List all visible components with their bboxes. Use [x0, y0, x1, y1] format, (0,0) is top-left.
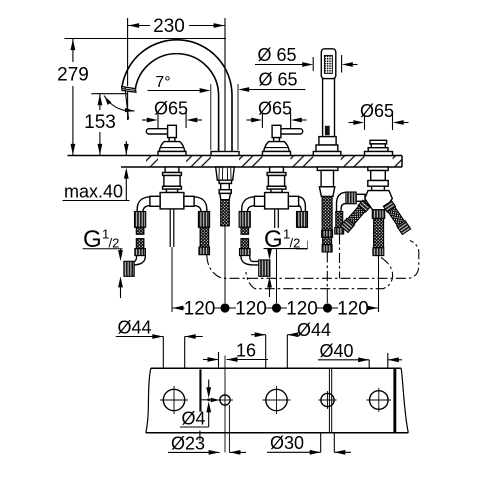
svg-text:Ø 65: Ø 65	[257, 45, 296, 65]
spout (hole 2)	[122, 40, 232, 156]
svg-text:Ø65: Ø65	[154, 99, 188, 119]
hole 1 plan circle Ø44	[160, 386, 188, 414]
valve 1 tailpiece	[170, 209, 174, 312]
7 degree angle annotation	[103, 87, 211, 121]
dimension Ø 65 (spout hole 2)	[211, 84, 306, 150]
svg-text:Ø30: Ø30	[270, 433, 304, 453]
dimension line 120x4	[172, 303, 379, 312]
left break line	[146, 368, 151, 432]
deck top surface line	[68, 155, 403, 157]
dash-dot connection line B (valve3 G1/2 end to diverter center hose)	[246, 258, 393, 289]
dimension Ø65 (diverter hole 5)	[349, 115, 409, 131]
dimension Ø65 (handle hole 1)	[142, 113, 202, 129]
spout escutcheon	[211, 152, 239, 156]
dimension 16	[203, 352, 268, 452]
G1/2 elbow end V1	[134, 256, 145, 265]
dimension Ø44 (hole 1 plan)	[116, 334, 203, 368]
svg-text:Ø65: Ø65	[258, 99, 292, 119]
svg-text:Ø4: Ø4	[182, 409, 206, 429]
braided hose V1 left	[136, 227, 144, 234]
right elbow pipe V3	[299, 197, 306, 212]
right break line	[401, 368, 408, 432]
hose nuts V1	[135, 212, 146, 228]
svg-text:230: 230	[153, 16, 185, 37]
svg-text:Ø44: Ø44	[297, 320, 331, 340]
diverter knob (hole 5)	[365, 140, 393, 155]
svg-text:279: 279	[57, 65, 89, 86]
dimension Ø30 (hole 4 plan)	[267, 433, 351, 455]
handle 1 (hole 1 lever)	[146, 125, 186, 155]
svg-text:Ø65: Ø65	[360, 101, 394, 121]
dash-dot connection line A (valve1 right hose to diverter right hose)	[207, 235, 419, 289]
svg-text:Ø44: Ø44	[118, 318, 152, 338]
svg-text:Ø23: Ø23	[171, 433, 205, 453]
svg-text:/2: /2	[290, 236, 301, 251]
right elbow pipe V1	[194, 197, 207, 212]
hole 2 plan circle Ø23	[217, 392, 233, 408]
svg-text:120: 120	[184, 299, 216, 320]
svg-text:/2: /2	[109, 236, 120, 251]
valve body under hole 3	[242, 167, 306, 212]
hand shower shank + hose under hole 4	[317, 167, 338, 252]
svg-text:G: G	[83, 226, 102, 253]
left elbow pipe V3	[242, 197, 255, 212]
svg-text:max.40: max.40	[64, 182, 123, 202]
svg-text:G: G	[264, 226, 283, 253]
thick joint bar left	[199, 369, 201, 411]
hose nuts V3	[239, 212, 250, 228]
svg-text:7°: 7°	[155, 74, 170, 91]
dash-dot junction hand shower hose	[326, 253, 328, 289]
braided hose V3 left	[241, 227, 249, 234]
dimension Ø23 (hole 2 plan)	[168, 405, 246, 455]
G 1/2 label (valve 1)	[83, 249, 123, 298]
deck underside line	[121, 166, 402, 168]
dimension Ø 65 (hand shower hole 4)	[255, 55, 358, 73]
deck right edge	[401, 156, 403, 168]
svg-text:16: 16	[236, 341, 256, 361]
dimension Ø44 (hole 3 plan)	[251, 332, 298, 368]
dimension 279	[64, 39, 226, 156]
valve 3 tailpiece	[275, 209, 279, 303]
handle 2 (hole 3 lever)	[263, 125, 303, 155]
svg-text:120: 120	[235, 299, 267, 320]
diverter valve under hole 5	[335, 167, 393, 234]
double line at hole 4	[328, 368, 330, 432]
braided hose V1 right	[200, 227, 209, 247]
spout shank under hole 2	[216, 167, 235, 226]
dash-dot junction diverter left hose	[339, 235, 341, 279]
G 1/2 label (valve 3)	[264, 249, 308, 297]
deck hatched section	[68, 156, 403, 168]
diverter right diagonal hose	[383, 201, 410, 235]
hand shower (hole 4)	[313, 49, 341, 156]
dimension Ø40 (hole 5 plan)	[318, 353, 402, 368]
valve body under hole 1	[137, 167, 207, 212]
svg-text:153: 153	[84, 112, 116, 133]
svg-text:120: 120	[286, 299, 318, 320]
spout mouth	[122, 87, 136, 93]
svg-text:Ø 65: Ø 65	[258, 70, 297, 90]
thick joint bar right	[393, 368, 396, 432]
dimension Ø4 (pin hole)	[180, 380, 220, 428]
hole 5 plan circle Ø40	[367, 388, 392, 412]
plan view deck band	[146, 368, 409, 432]
svg-text:120: 120	[337, 299, 369, 320]
hole 4 plan circle Ø30	[319, 391, 337, 409]
diverter center outlet hose	[372, 210, 384, 256]
diverter left diagonal hose	[340, 200, 370, 232]
dimension Ø65 (handle hole 3)	[247, 113, 307, 129]
hole 3 plan circle Ø44	[263, 386, 291, 414]
braided hose V3 right	[298, 227, 307, 241]
G1/2 elbow end V3	[241, 256, 259, 265]
dimension 153	[91, 94, 128, 156]
svg-text:Ø40: Ø40	[320, 341, 354, 361]
max.40 annotation	[63, 141, 130, 201]
dimension 230	[128, 18, 225, 152]
left elbow pipe V1	[137, 197, 150, 212]
